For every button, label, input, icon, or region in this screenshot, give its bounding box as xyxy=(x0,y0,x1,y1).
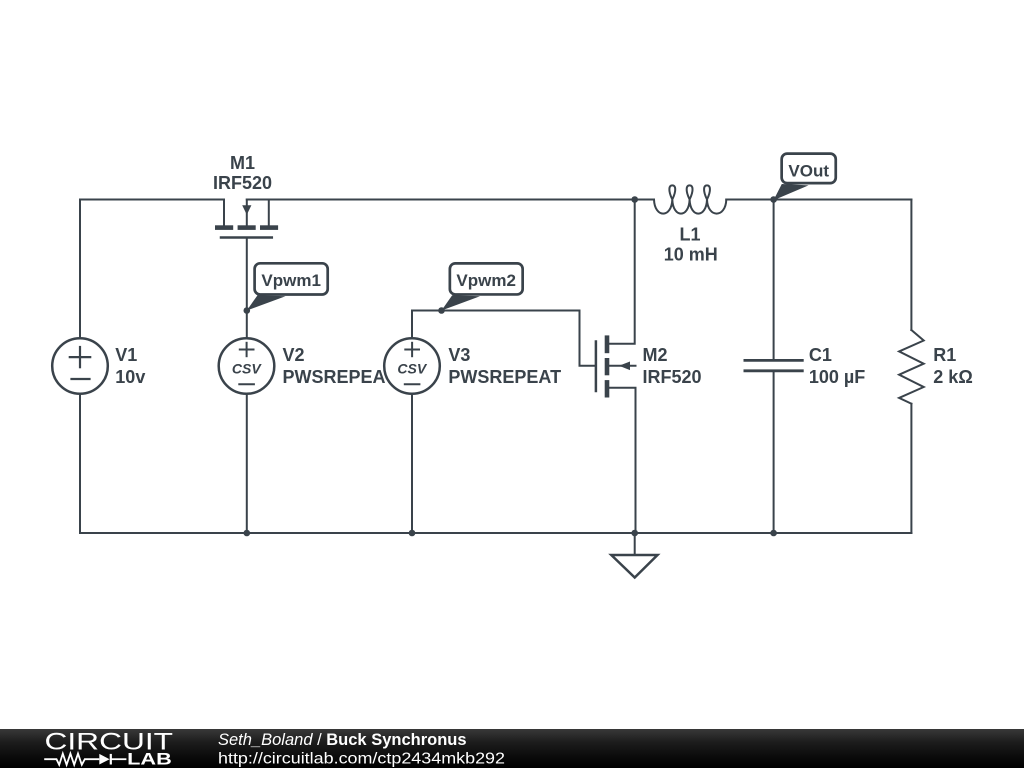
node dot C1 bottom xyxy=(770,530,777,537)
voltage source V1 xyxy=(52,338,108,394)
svg-text:100 µF: 100 µF xyxy=(809,367,865,387)
svg-text:V1: V1 xyxy=(115,345,137,365)
svg-text:V3: V3 xyxy=(448,345,470,365)
node dot Vpwm2 xyxy=(438,307,445,314)
flag Vpwm1 xyxy=(247,263,328,310)
flag VOut xyxy=(774,154,836,201)
node dot ground xyxy=(631,530,638,537)
flag Vpwm2 xyxy=(442,263,523,310)
resistor R1 xyxy=(899,330,924,404)
wire left vertical lower xyxy=(79,394,81,533)
wire bottom horizontal xyxy=(80,532,911,534)
svg-text:PWSREPEAT: PWSREPEAT xyxy=(283,367,396,387)
inductor L1 xyxy=(654,185,726,213)
wire top-left horizontal xyxy=(80,199,224,201)
svg-text:10 mH: 10 mH xyxy=(664,245,718,265)
node dot M2 drain top xyxy=(631,196,638,203)
svg-text:R1: R1 xyxy=(933,345,956,365)
svg-text:IRF520: IRF520 xyxy=(213,173,272,193)
svg-text:2 kΩ: 2 kΩ xyxy=(933,367,972,387)
wire V3 top to M2 gate xyxy=(412,311,595,366)
svg-text:VOut: VOut xyxy=(788,161,829,180)
node dot Vpwm1 xyxy=(244,307,251,314)
transistor M1 xyxy=(215,200,278,238)
svg-text:V2: V2 xyxy=(283,345,305,365)
voltage source V3 xyxy=(384,338,440,394)
footer bar xyxy=(0,729,1024,768)
wire V3 bottom xyxy=(411,394,413,533)
footer logo resistor-diode graphic xyxy=(44,754,126,765)
svg-text:PWSREPEAT: PWSREPEAT xyxy=(448,367,561,387)
ground xyxy=(611,533,657,578)
wire left vertical upper xyxy=(79,200,81,339)
wire right vertical upper xyxy=(910,200,912,331)
wire C1 top xyxy=(773,200,775,360)
wire M1 gate to V2 xyxy=(246,239,248,339)
wire right vertical lower xyxy=(910,404,912,533)
wire top middle horizontal xyxy=(247,199,654,201)
svg-text:C1: C1 xyxy=(809,345,832,365)
wire top right horizontal xyxy=(726,199,911,201)
svg-text:L1: L1 xyxy=(679,225,700,245)
wire C1 bottom xyxy=(773,372,775,533)
node dot VOut xyxy=(770,196,777,203)
svg-text:M2: M2 xyxy=(643,345,668,365)
svg-text:Vpwm2: Vpwm2 xyxy=(456,271,516,290)
svg-text:IRF520: IRF520 xyxy=(643,367,702,387)
svg-text:http://circuitlab.com/ctp2434m: http://circuitlab.com/ctp2434mkb292 xyxy=(218,750,505,767)
node dot V2 bottom xyxy=(244,530,251,537)
voltage source V2 xyxy=(219,338,275,394)
svg-text:10v: 10v xyxy=(115,367,145,387)
transistor M2 xyxy=(596,200,636,534)
node dot V3 bottom xyxy=(409,530,416,537)
svg-text:LAB: LAB xyxy=(127,751,172,768)
svg-text:Seth_Boland / Buck Synchronus: Seth_Boland / Buck Synchronus xyxy=(218,731,467,749)
svg-text:CSV: CSV xyxy=(397,361,427,377)
capacitor C1 xyxy=(745,360,802,370)
svg-text:M1: M1 xyxy=(230,153,255,173)
wire V2 bottom xyxy=(246,394,248,533)
svg-text:CSV: CSV xyxy=(232,361,262,377)
svg-text:Vpwm1: Vpwm1 xyxy=(261,271,321,290)
